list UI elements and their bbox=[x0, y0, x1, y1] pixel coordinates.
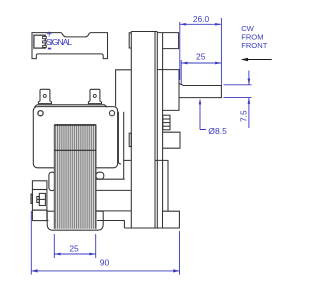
dim 7.5 line bbox=[248, 71, 250, 85]
motor can bbox=[33, 107, 117, 168]
lower boss bbox=[163, 132, 180, 148]
arrowheads 7.5 bbox=[248, 79, 251, 85]
arrowheads 25 bottom bbox=[54, 253, 60, 256]
svg-text:26.0: 26.0 bbox=[193, 14, 210, 24]
dim 25 bottom extension lines bbox=[53, 234, 55, 258]
svg-text:FRONT: FRONT bbox=[241, 41, 268, 50]
adjuster screw mid line bbox=[37, 198, 46, 200]
left bracket middle box bbox=[32, 190, 47, 211]
mounting bracket plate bbox=[116, 70, 132, 107]
lamination stack bbox=[54, 125, 96, 229]
arrowhead O8.5 leader bbox=[199, 99, 202, 105]
pin 3 (-) bbox=[43, 45, 47, 47]
dim 25 top extension bbox=[180, 60, 182, 84]
hex fitting bbox=[163, 115, 170, 130]
svg-text:Ø8.5: Ø8.5 bbox=[208, 126, 227, 136]
left bracket upper box bbox=[32, 181, 47, 190]
dim 90 line bbox=[31, 270, 179, 272]
coil lines in gap bbox=[118, 112, 121, 164]
tower top edge bbox=[131, 31, 157, 33]
can top band bbox=[34, 105, 107, 107]
top boss bbox=[157, 33, 178, 49]
dim 26.0 extension lines bbox=[179, 22, 181, 80]
bearing hub bbox=[157, 70, 179, 111]
connector housing outline bbox=[32, 33, 108, 59]
front step bbox=[155, 160, 168, 211]
stator pole lobe right bbox=[96, 172, 104, 179]
front foot bbox=[163, 211, 180, 228]
base step left bbox=[97, 221, 124, 229]
link to bell top bbox=[47, 210, 49, 212]
motor can screw left bbox=[38, 111, 43, 116]
gearcase front face bbox=[162, 33, 164, 212]
stator pole lobe left bbox=[49, 172, 55, 190]
svg-text:25: 25 bbox=[196, 52, 206, 62]
dim 90 extension lines bbox=[30, 211, 32, 275]
CW rotation arrow bbox=[241, 58, 272, 61]
bracket right edge / gear housing rear bbox=[130, 32, 132, 229]
gearcase seam line bbox=[156, 32, 158, 229]
dim 7.5 extension lines bbox=[224, 84, 252, 86]
end bell bbox=[47, 211, 103, 230]
terminal T1 hole bbox=[43, 94, 46, 97]
terminal T2 bbox=[88, 89, 101, 103]
svg-text:7.5: 7.5 bbox=[239, 110, 249, 122]
connector pin block bbox=[34, 35, 45, 48]
coil boundary line across stack bbox=[54, 149, 96, 151]
pin 2 (signal) bbox=[43, 41, 47, 43]
terminal T1 bbox=[38, 89, 51, 103]
leader O8.5 bbox=[200, 100, 206, 130]
arrowheads 25 top bbox=[181, 62, 187, 65]
base bottom line bbox=[124, 227, 179, 229]
pin 1 (+) bbox=[43, 37, 47, 39]
adjuster screw tip bbox=[37, 197, 40, 203]
left bracket lower box bbox=[32, 210, 47, 221]
slot in rear plate bbox=[129, 133, 131, 146]
terminal T2 hole bbox=[93, 94, 96, 97]
dim 25 top line bbox=[181, 62, 221, 64]
arrowheads 90 bbox=[31, 269, 37, 272]
link to bell base bbox=[47, 219, 49, 221]
dim 26.0 line bbox=[180, 23, 222, 25]
tower left tab bbox=[129, 33, 131, 48]
motor can screw right bbox=[109, 111, 114, 116]
bobbin lines below can bbox=[96, 178, 125, 180]
adjuster screw head bbox=[39, 193, 45, 205]
dim 25 bottom line bbox=[54, 253, 95, 255]
shaft bbox=[179, 83, 221, 97]
svg-text:SIGNAL: SIGNAL bbox=[46, 37, 72, 47]
stud bump on left face bbox=[31, 194, 32, 204]
svg-text:90: 90 bbox=[100, 258, 110, 268]
label - bbox=[48, 48, 51, 50]
gearcase rear line bbox=[154, 32, 156, 229]
svg-text:25: 25 bbox=[69, 243, 79, 253]
arrowheads 26.0 bbox=[180, 23, 186, 26]
